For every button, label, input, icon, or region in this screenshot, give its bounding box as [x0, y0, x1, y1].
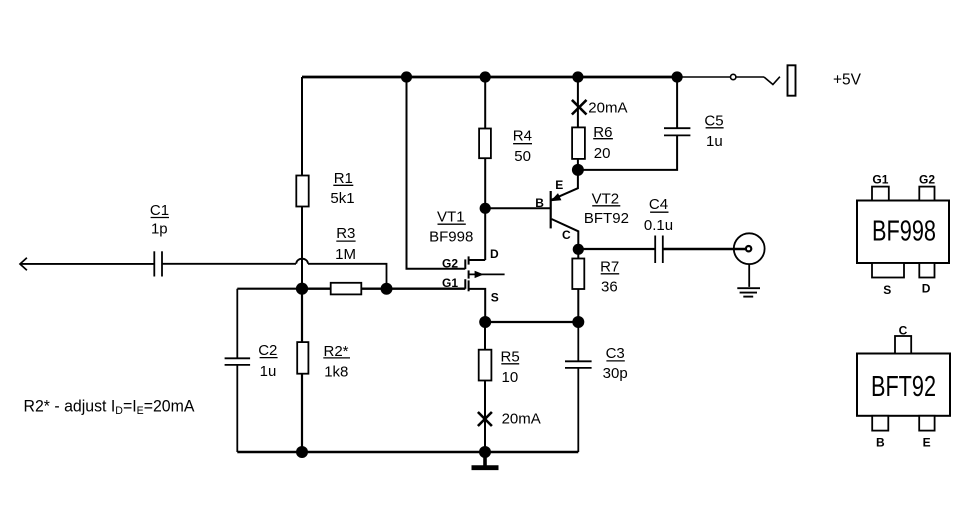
wire input line hop to node B	[308, 264, 387, 289]
node junction drain-base	[480, 203, 491, 214]
node junction collector-R7-C4	[573, 244, 584, 255]
supply open terminal circle	[731, 74, 736, 79]
wire ground stem	[483, 452, 487, 466]
ground symbol (bottom rail)	[472, 465, 499, 470]
node junction R7-C3	[572, 316, 584, 328]
svg-text:1u: 1u	[706, 133, 723, 150]
resistor R1	[296, 176, 308, 207]
svg-text:D: D	[922, 282, 931, 296]
wire C2 bottom lead	[236, 365, 238, 452]
wire hop over R1 branch	[296, 259, 308, 264]
svg-text:VT1: VT1	[437, 209, 465, 226]
svg-text:D: D	[490, 247, 499, 261]
svg-text:5k1: 5k1	[330, 190, 354, 207]
wire collector node to R7	[577, 249, 579, 258]
wire input line C1 to hop	[162, 263, 296, 265]
wire rail extension to plug	[677, 76, 730, 78]
wire C5 bottom to emitter node	[578, 135, 677, 170]
svg-text:C4: C4	[649, 196, 668, 213]
wire plug lead	[736, 76, 764, 78]
svg-text:R5: R5	[501, 348, 520, 365]
pin G1 of BF998 package	[872, 187, 889, 201]
wire C4 to output connector	[663, 248, 746, 250]
wire rail to C5	[676, 77, 678, 128]
svg-text:1u: 1u	[260, 363, 277, 380]
svg-text:20mA: 20mA	[588, 100, 627, 117]
svg-text:BFT92: BFT92	[584, 210, 629, 227]
svg-text:+5V: +5V	[833, 71, 862, 88]
supply plug body	[788, 65, 796, 95]
svg-text:R3: R3	[336, 225, 355, 242]
svg-text:50: 50	[514, 148, 531, 165]
transistor Q2 VT2 PNP	[550, 170, 578, 249]
svg-text:E: E	[923, 436, 931, 450]
wire C3 bottom lead	[577, 368, 579, 452]
wire drain node to base	[485, 207, 550, 209]
resistor R4	[479, 129, 491, 159]
current cross X 20mA at R6	[572, 100, 587, 115]
svg-text:1p: 1p	[151, 221, 168, 238]
resistor R3	[331, 283, 362, 295]
node B junction input-R3-G1	[381, 283, 393, 295]
svg-text:10: 10	[502, 369, 519, 386]
wire node A to R2	[301, 289, 303, 342]
wire R5 to bottom rail	[484, 381, 486, 453]
wire C2 top lead	[236, 289, 238, 359]
svg-text:R1: R1	[334, 170, 353, 187]
input arrow	[20, 258, 27, 271]
svg-text:R2* - adjust ID=IE=20mA: R2* - adjust ID=IE=20mA	[24, 397, 195, 417]
svg-text:B: B	[876, 436, 885, 450]
svg-text:C2: C2	[258, 342, 277, 359]
svg-text:R7: R7	[600, 258, 619, 275]
wire G2 drop from rail	[407, 77, 466, 269]
svg-text:C: C	[899, 324, 908, 338]
wire left branch vertical (rail to R1)	[301, 77, 303, 176]
capacitor C5	[664, 128, 690, 135]
svg-text:G1: G1	[442, 276, 458, 290]
wire node A to C2 top	[237, 288, 302, 290]
svg-text:G2: G2	[919, 173, 935, 187]
svg-text:S: S	[491, 291, 499, 305]
capacitor C4	[655, 236, 663, 264]
resistor R2	[297, 342, 308, 374]
resistor R6	[572, 127, 585, 158]
svg-text:BF998: BF998	[429, 228, 473, 245]
node A junction R1-R3-C2-R2	[296, 283, 308, 295]
node junction rail-C5	[672, 71, 683, 82]
svg-text:C5: C5	[704, 112, 723, 129]
svg-text:C3: C3	[606, 345, 625, 362]
wire rail to R6	[577, 77, 579, 127]
transistor Q1 VT1 dual-gate MOSFET	[465, 256, 504, 322]
svg-text:G1: G1	[872, 173, 888, 187]
wire R1 bottom to node A	[301, 207, 303, 289]
wire R7 to source-C3 wire	[577, 289, 579, 322]
svg-text:S: S	[883, 283, 891, 297]
svg-text:R4: R4	[513, 128, 532, 145]
capacitor C3	[565, 361, 592, 368]
pin C of BFT92 package	[895, 336, 911, 354]
node junction ground-bottom rail	[479, 446, 491, 458]
svg-text:36: 36	[601, 278, 618, 295]
wire R2 to bottom rail	[301, 374, 303, 452]
wire source node to C3 node	[485, 321, 578, 323]
svg-text:VT2: VT2	[592, 190, 620, 207]
pin S of BF998 package	[872, 263, 904, 278]
output coax connector	[734, 233, 765, 264]
wire R6 to emitter node	[577, 159, 579, 170]
svg-text:20mA: 20mA	[502, 411, 541, 428]
wire C3 top lead	[577, 322, 579, 361]
pin E of BFT92 package	[919, 416, 934, 431]
node junction source-R5	[479, 316, 491, 328]
capacitor C2	[225, 358, 251, 365]
svg-text:BF998: BF998	[872, 216, 936, 248]
IC package U2 BFT92 body	[857, 354, 950, 416]
svg-text:BFT92: BFT92	[871, 371, 936, 403]
node junction emitter-R6-C5	[572, 164, 584, 176]
node junction rail-R4	[480, 71, 491, 82]
ground symbol (connector earth)	[737, 288, 760, 296]
node junction rail-R6	[572, 71, 583, 82]
svg-text:B: B	[535, 196, 544, 210]
wire rail to R4	[484, 77, 486, 129]
pin G2 of BF998 package	[919, 187, 934, 201]
wire node A to R3	[302, 288, 331, 290]
current cross X 20mA at R5	[478, 412, 492, 426]
wire top supply rail	[302, 76, 677, 79]
wire bottom ground rail	[237, 451, 578, 454]
svg-text:C1: C1	[150, 202, 169, 219]
resistor R5	[479, 350, 492, 381]
wire R3 to G1	[361, 288, 465, 290]
resistor R7	[572, 259, 584, 290]
IC package U1 BF998 body	[857, 201, 949, 264]
svg-text:20: 20	[594, 145, 611, 162]
wire plug spring contact	[764, 77, 780, 85]
wire source node to R5	[484, 322, 486, 350]
svg-text:30p: 30p	[603, 365, 628, 382]
svg-text:E: E	[555, 178, 563, 192]
svg-text:1M: 1M	[335, 246, 356, 263]
svg-text:C: C	[562, 228, 571, 242]
pin D of BF998 package	[919, 263, 934, 278]
wire connector to ground	[748, 264, 750, 287]
node junction rail-G2	[401, 71, 412, 82]
svg-text:0.1u: 0.1u	[644, 217, 673, 234]
wire R4 to drain	[484, 158, 486, 260]
svg-text:G2: G2	[442, 257, 458, 271]
pin B of BFT92 package	[872, 416, 888, 431]
capacitor C1	[154, 251, 162, 276]
node junction R2-bottom rail	[296, 446, 308, 458]
wire input line left segment	[20, 263, 154, 265]
svg-text:1k8: 1k8	[324, 364, 348, 381]
wire collector node to C4	[578, 248, 655, 250]
